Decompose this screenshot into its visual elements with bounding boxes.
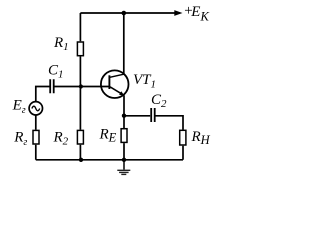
svg-text:R2: R2: [53, 130, 69, 148]
svg-text:Rг: Rг: [13, 130, 27, 149]
svg-text:RE: RE: [99, 127, 117, 145]
svg-text:Eг: Eг: [12, 98, 26, 117]
svg-text:C1: C1: [48, 63, 64, 81]
svg-text:C2: C2: [151, 92, 167, 110]
svg-text:RH: RH: [191, 129, 211, 147]
svg-text:EK: EK: [190, 4, 209, 24]
svg-text:R1: R1: [53, 35, 69, 53]
svg-text:VT1: VT1: [133, 72, 156, 91]
